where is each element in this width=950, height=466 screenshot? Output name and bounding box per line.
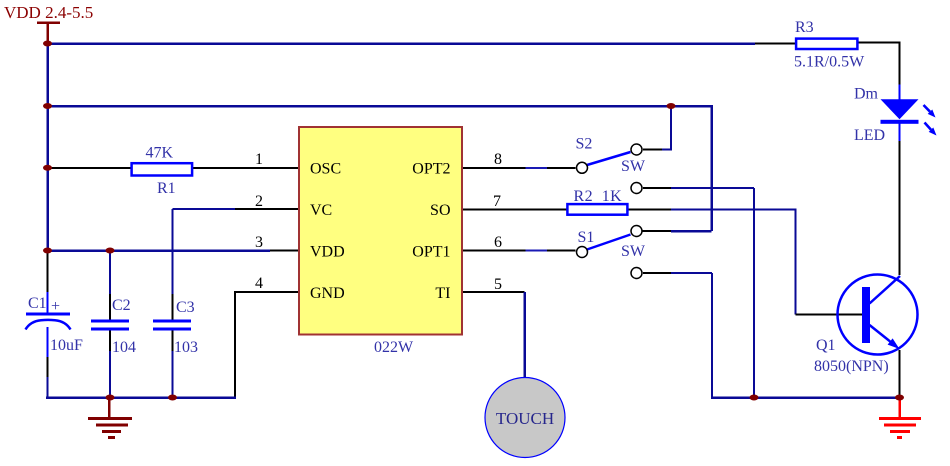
wire R2 to Q1 base bbox=[628, 210, 863, 315]
node junction C3 bottom bbox=[168, 395, 177, 401]
node junction emitter ground bbox=[895, 395, 904, 401]
wire C2 bottom lead bbox=[109, 330, 111, 398]
svg-text:SO: SO bbox=[430, 202, 450, 219]
svg-text:OSC: OSC bbox=[310, 161, 341, 178]
svg-text:5.1R/0.5W: 5.1R/0.5W bbox=[794, 54, 865, 71]
svg-text:103: 103 bbox=[174, 339, 198, 356]
switch S1 throw1 contact bbox=[631, 226, 642, 237]
wire S2 throw2 to bottom rail bbox=[643, 188, 754, 398]
resistor R1 bbox=[132, 163, 193, 175]
switch S2 common contact bbox=[577, 162, 588, 173]
wire LED anode lead bbox=[899, 85, 901, 102]
switch S1 common contact bbox=[577, 247, 588, 258]
svg-text:8: 8 bbox=[494, 151, 502, 168]
wire pin8 net segment (navy) bbox=[526, 167, 548, 169]
svg-text:10uF: 10uF bbox=[50, 337, 83, 354]
svg-text:TOUCH: TOUCH bbox=[496, 409, 554, 428]
wire pin3 VDD row bbox=[46, 249, 299, 252]
transistor Q1 base bar bbox=[862, 287, 870, 343]
svg-text:SW: SW bbox=[621, 243, 646, 260]
svg-text:+: + bbox=[51, 298, 60, 315]
touch pad TOUCH bbox=[485, 378, 565, 458]
svg-text:S1: S1 bbox=[578, 229, 595, 246]
wire rail1 VDD top (navy) bbox=[46, 42, 755, 45]
LED Dm cathode bar bbox=[881, 120, 919, 124]
switch S1 arm bbox=[587, 235, 631, 250]
wire pin6 net segment (navy) bbox=[526, 250, 548, 252]
wire pin7 SO to R2 bbox=[462, 209, 567, 211]
wire S1 throw1 to rail2 vertical bbox=[642, 230, 712, 232]
node junction S2 branch bbox=[667, 103, 676, 109]
wire left rail vertical bbox=[46, 43, 49, 252]
IC U1 022W body bbox=[299, 127, 462, 335]
ground right (red) bbox=[879, 398, 921, 438]
wire S2 throw1 branch to rail2 bbox=[643, 106, 671, 150]
power bar symbol VDD bbox=[37, 23, 60, 45]
node junction C2 bottom bbox=[106, 395, 115, 401]
switch S1 throw2 contact bbox=[631, 268, 642, 279]
wire pin5 TI to touch pad bbox=[462, 292, 525, 378]
svg-text:R2 1K: R2 1K bbox=[574, 188, 623, 205]
svg-text:Q1: Q1 bbox=[816, 337, 836, 354]
LED light arrow 1 bbox=[924, 105, 936, 118]
wire bottom-left ground rail bbox=[46, 396, 236, 399]
wire R1 to OSC pin1 bbox=[193, 167, 300, 169]
wire C3 bottom lead bbox=[172, 330, 174, 398]
svg-text:GND: GND bbox=[310, 285, 345, 302]
resistor R2 bbox=[567, 204, 627, 215]
wire pin2 VC row bbox=[173, 209, 300, 320]
svg-text:2: 2 bbox=[255, 193, 263, 210]
capacitor C2 bbox=[91, 321, 129, 329]
node junction rail2-left bbox=[43, 103, 52, 109]
node junction R1 tap bbox=[43, 165, 52, 171]
svg-text:3: 3 bbox=[255, 234, 263, 251]
LED light arrow 2 bbox=[925, 123, 937, 136]
wire C2 top lead bbox=[109, 251, 111, 320]
node junction rail1-left bbox=[43, 41, 52, 47]
LED Dm anode triangle bbox=[881, 99, 919, 119]
svg-text:Dm: Dm bbox=[854, 86, 879, 103]
transistor Q1 collector stroke bbox=[870, 276, 901, 304]
svg-text:104: 104 bbox=[112, 339, 136, 356]
svg-text:7: 7 bbox=[493, 193, 501, 210]
svg-text:LED: LED bbox=[854, 127, 885, 144]
svg-text:VDD 2.4-5.5: VDD 2.4-5.5 bbox=[4, 3, 93, 22]
node junction VDD row left bbox=[43, 248, 52, 254]
node junction S2 throw2 bottom bbox=[750, 395, 759, 401]
wire C1 top lead blue bbox=[47, 292, 49, 314]
svg-text:OPT2: OPT2 bbox=[412, 161, 450, 178]
wire rail1 VDD to R3 (black) bbox=[755, 43, 796, 45]
ground left (maroon) bbox=[88, 398, 132, 438]
transistor Q1 circle bbox=[838, 275, 918, 355]
svg-text:S2: S2 bbox=[576, 136, 593, 153]
svg-text:47K: 47K bbox=[146, 145, 174, 162]
svg-text:R3: R3 bbox=[795, 19, 814, 36]
wire bottom-right ground rail bbox=[711, 396, 900, 399]
wire Q1 emitter to ground bbox=[899, 350, 901, 398]
switch S2 arm bbox=[587, 152, 631, 165]
wire C1 bottom lead bbox=[47, 327, 49, 399]
svg-text:C1: C1 bbox=[28, 295, 47, 312]
wire LED cathode to Q1 collector bbox=[899, 124, 901, 276]
wire rail to R1 (pin1 row) bbox=[46, 167, 132, 169]
svg-text:R1: R1 bbox=[157, 180, 176, 197]
wire pin4 GND row bbox=[235, 292, 299, 398]
svg-text:C3: C3 bbox=[176, 299, 195, 316]
wire R3 to LED corner bbox=[859, 43, 900, 85]
switch S2 throw2 contact bbox=[631, 183, 642, 194]
svg-text:OPT1: OPT1 bbox=[412, 244, 450, 261]
wire rail2 (y=105) bbox=[46, 106, 712, 231]
svg-text:SW: SW bbox=[621, 158, 646, 175]
svg-text:5: 5 bbox=[494, 276, 502, 293]
svg-text:C2: C2 bbox=[112, 297, 131, 314]
capacitor C1 bbox=[26, 314, 71, 330]
wire C1 top lead black bbox=[47, 252, 49, 293]
wire pin8 OPT2 to S2 bbox=[462, 167, 576, 169]
resistor R3 bbox=[796, 39, 857, 49]
transistor Q1 emitter stroke with arrow bbox=[870, 325, 900, 349]
wire S1 throw2 to bottom rail bbox=[643, 273, 712, 399]
svg-text:VDD: VDD bbox=[310, 244, 345, 261]
svg-text:VC: VC bbox=[310, 202, 332, 219]
node junction C2 top bbox=[106, 248, 115, 254]
svg-text:TI: TI bbox=[435, 285, 450, 302]
svg-text:8050(NPN): 8050(NPN) bbox=[814, 358, 889, 375]
svg-text:1: 1 bbox=[255, 151, 263, 168]
svg-text:022W: 022W bbox=[374, 339, 414, 356]
capacitor C3 bbox=[153, 321, 191, 329]
switch S2 throw1 contact bbox=[631, 144, 642, 155]
wire pin6 OPT1 to S1 bbox=[462, 250, 576, 252]
svg-text:4: 4 bbox=[255, 275, 263, 292]
svg-text:6: 6 bbox=[494, 234, 502, 251]
